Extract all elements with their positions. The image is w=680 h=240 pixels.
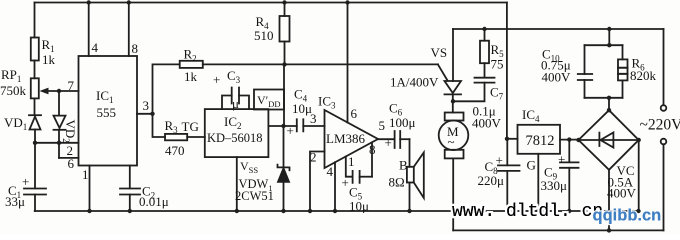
svg-text:400V: 400V <box>472 116 502 131</box>
svg-text:510: 510 <box>254 28 274 43</box>
svg-text:8: 8 <box>369 142 376 157</box>
svg-text:5: 5 <box>379 118 386 133</box>
svg-text:C3: C3 <box>227 68 241 85</box>
svg-text:VSS: VSS <box>240 159 258 175</box>
svg-text:1k: 1k <box>184 69 198 84</box>
svg-text:qqibb.cn: qqibb.cn <box>593 207 662 225</box>
svg-text:8Ω: 8Ω <box>389 175 405 190</box>
svg-text:+: + <box>287 123 294 138</box>
svg-text:8: 8 <box>132 41 139 56</box>
svg-text:+: + <box>558 152 565 167</box>
svg-text:1A/400V: 1A/400V <box>390 75 439 90</box>
svg-text:IC1: IC1 <box>96 88 114 105</box>
svg-text:0.01μ: 0.01μ <box>139 194 169 209</box>
svg-text:3: 3 <box>310 111 317 126</box>
svg-text:1k: 1k <box>42 52 56 67</box>
svg-text:10μ: 10μ <box>292 101 312 116</box>
svg-text:750k: 750k <box>0 83 27 98</box>
svg-text:470: 470 <box>165 143 185 158</box>
svg-text:+: + <box>213 72 220 87</box>
svg-text:2: 2 <box>310 150 317 165</box>
svg-text:1: 1 <box>348 154 355 169</box>
svg-text:555: 555 <box>97 105 117 120</box>
svg-text:G: G <box>527 158 536 173</box>
svg-text:75: 75 <box>491 57 504 72</box>
svg-text:www. dltdl. cn: www. dltdl. cn <box>452 202 603 222</box>
svg-text:4: 4 <box>92 40 99 55</box>
svg-text:400V: 400V <box>607 186 637 201</box>
svg-text:7812: 7812 <box>526 133 555 149</box>
svg-text:IC4: IC4 <box>522 107 540 124</box>
svg-text:6: 6 <box>351 106 358 121</box>
svg-text:KD–56018: KD–56018 <box>207 131 263 145</box>
svg-text:LM386: LM386 <box>326 131 366 146</box>
svg-text:4: 4 <box>327 164 334 179</box>
svg-text:IC2: IC2 <box>224 114 242 131</box>
svg-text:VD2: VD2 <box>61 120 78 143</box>
svg-text:~: ~ <box>448 134 455 149</box>
svg-text:VD1: VD1 <box>4 115 27 132</box>
svg-text:~220V: ~220V <box>640 117 680 134</box>
svg-text:2CW51: 2CW51 <box>235 189 274 203</box>
svg-text:3: 3 <box>143 98 150 113</box>
svg-text:R2: R2 <box>184 47 197 64</box>
svg-text:TG: TG <box>182 119 199 134</box>
svg-text:6: 6 <box>68 156 75 171</box>
svg-text:100μ: 100μ <box>389 115 416 130</box>
svg-text:820k: 820k <box>630 68 657 83</box>
svg-text:330μ: 330μ <box>541 178 568 193</box>
svg-text:IC3: IC3 <box>318 94 336 111</box>
svg-text:C7: C7 <box>490 85 504 102</box>
svg-text:+: + <box>385 135 392 150</box>
svg-text:R3: R3 <box>165 118 179 135</box>
svg-text:+: + <box>22 174 29 189</box>
svg-text:V′DD: V′DD <box>257 93 281 109</box>
svg-text:1: 1 <box>82 167 89 182</box>
svg-text:RP1: RP1 <box>1 67 21 84</box>
svg-text:μ: μ <box>232 96 239 111</box>
svg-text:B: B <box>399 158 408 173</box>
svg-text:VS: VS <box>431 45 448 60</box>
svg-text:33μ: 33μ <box>5 194 25 209</box>
svg-text:+: + <box>342 175 349 190</box>
svg-text:220μ: 220μ <box>478 173 505 188</box>
svg-text:7: 7 <box>68 78 75 93</box>
svg-text:400V: 400V <box>542 70 572 85</box>
svg-text:10μ: 10μ <box>349 199 369 214</box>
